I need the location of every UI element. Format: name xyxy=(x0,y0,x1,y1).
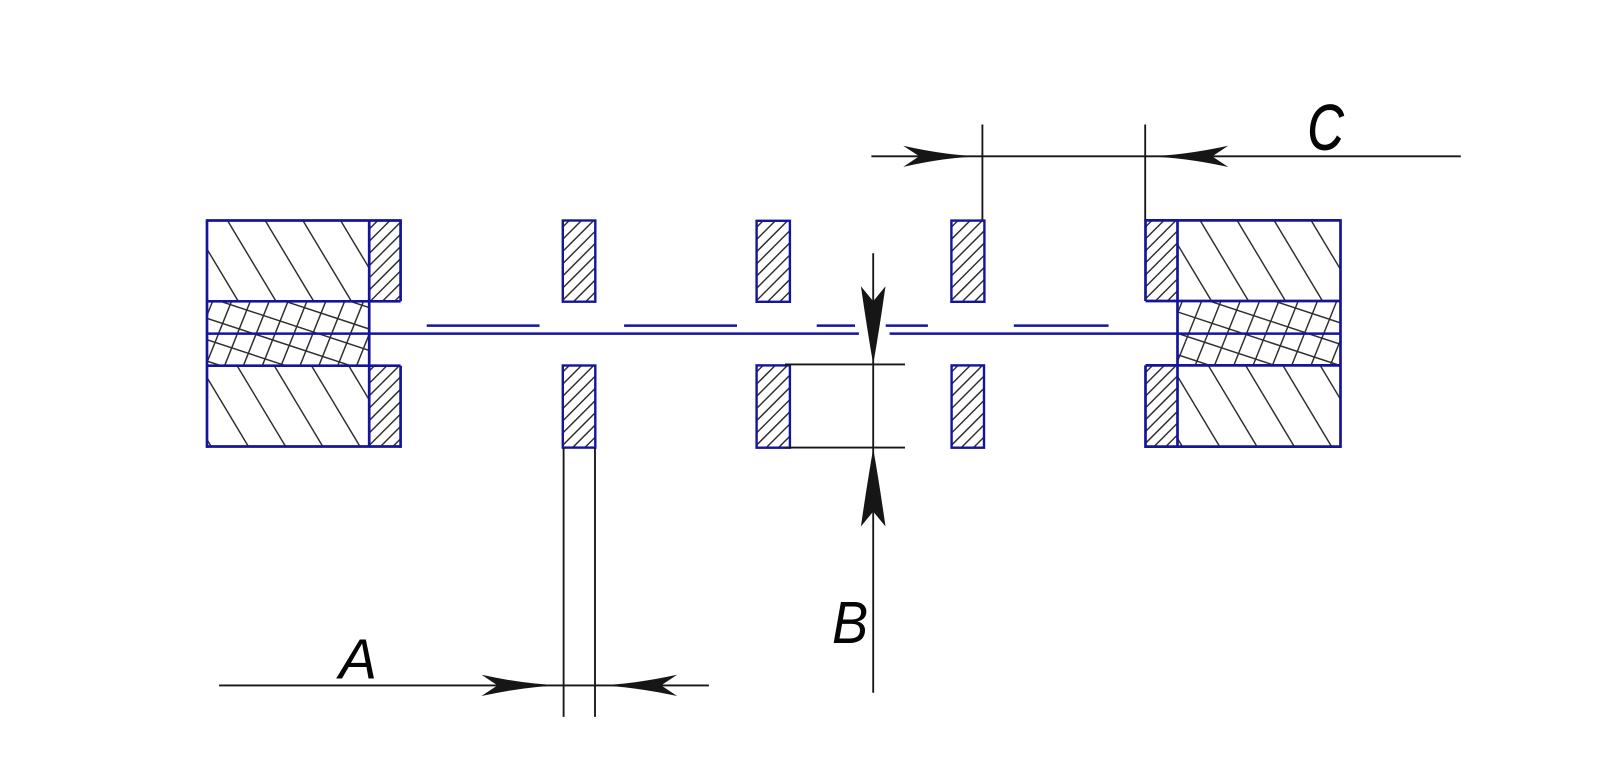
right flange upper plate hatch xyxy=(1163,220,1359,301)
label C xyxy=(1308,93,1345,164)
spacer plate 1 upper xyxy=(563,195,596,325)
dimension A arrow right xyxy=(595,675,677,696)
left flange upper seal strip hatch xyxy=(369,198,400,327)
dimension C arrow left xyxy=(903,146,982,167)
shaft centerline dash segments xyxy=(427,324,1109,327)
right flange lower seal strip hatch xyxy=(1146,341,1178,479)
dimension B arrow top xyxy=(861,286,886,364)
svg-text:B: B xyxy=(832,591,868,657)
left flange lower plate hatch xyxy=(163,366,398,447)
spacer plate 3 lower xyxy=(952,340,984,470)
dimension A line xyxy=(219,684,709,686)
shaft centerline main segment left xyxy=(207,332,859,335)
right flange upper seal strip hatch xyxy=(1146,195,1178,323)
dimension C extension line right xyxy=(1144,125,1146,220)
dimension B extension line top xyxy=(785,363,905,365)
left flange upper plate hatch xyxy=(190,221,389,302)
dimension C arrow right xyxy=(1146,146,1228,167)
left hub gasket cross-hatch xyxy=(187,254,382,415)
dimension A extension line right xyxy=(594,448,596,717)
dimension A arrow left xyxy=(482,675,564,696)
dimension B line xyxy=(872,253,874,693)
spacer plate 1 lower xyxy=(563,340,596,470)
right flange lower plate hatch xyxy=(1134,365,1369,446)
spacer plate 3 upper xyxy=(951,194,984,325)
svg-text:A: A xyxy=(336,628,377,692)
left flange lower seal strip hatch xyxy=(369,340,400,471)
spacer plate 2 lower xyxy=(757,339,790,482)
dimension C line xyxy=(871,155,1460,157)
dimension B extension line bottom xyxy=(785,447,905,449)
spacer plate 2 upper xyxy=(757,194,790,325)
shaft centerline main segment right xyxy=(890,332,1341,335)
label A xyxy=(336,628,377,692)
svg-text:C: C xyxy=(1308,93,1345,164)
dimension A extension line left xyxy=(563,448,565,717)
left flange outline xyxy=(207,219,401,448)
right flange outline xyxy=(1146,219,1341,448)
dimension C extension line left xyxy=(981,125,983,221)
label B xyxy=(832,591,868,657)
dimension B arrow bottom xyxy=(861,449,886,527)
right hub gasket cross-hatch xyxy=(1157,248,1357,409)
